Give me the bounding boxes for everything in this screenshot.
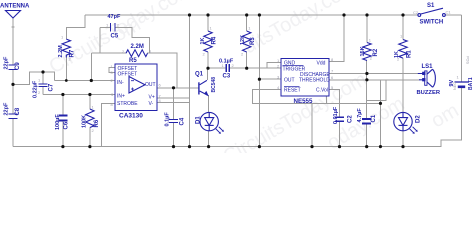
svg-text:SWITCH: SWITCH [420,20,444,26]
svg-text:OUT: OUT [284,77,295,83]
svg-text:R2: R2 [373,48,379,56]
svg-text:Q1: Q1 [195,72,204,78]
svg-text:D2: D2 [416,115,422,123]
svg-text:0.1µF: 0.1µF [165,112,171,127]
svg-text:1K: 1K [200,37,206,44]
svg-text:R1: R1 [407,50,413,58]
svg-text:STROBE: STROBE [117,101,138,107]
svg-text:C5: C5 [111,34,119,40]
svg-text:C8: C8 [15,107,21,115]
svg-text:22pF: 22pF [4,56,10,69]
svg-text:NEG: NEG [453,82,457,90]
svg-text:THRESHOLD: THRESHOLD [299,77,330,83]
svg-text:2.2M: 2.2M [58,45,64,58]
svg-text:100µF: 100µF [55,114,61,130]
svg-text:ANTENNA: ANTENNA [0,4,30,10]
svg-text:BUZZER: BUZZER [417,90,441,96]
svg-text:0.01µF: 0.01µF [333,106,339,124]
svg-text:R4: R4 [212,36,218,44]
svg-text:C1: C1 [446,10,452,15]
svg-text:R6: R6 [94,119,100,127]
svg-text:4.7µF: 4.7µF [357,108,363,123]
svg-text:Vdd: Vdd [317,61,326,67]
svg-text:V-: V- [149,101,154,107]
svg-text:R5: R5 [129,58,137,64]
svg-text:C3: C3 [223,74,231,80]
svg-text:RESET: RESET [284,87,301,93]
svg-text:100K: 100K [82,115,88,128]
svg-text:D1: D1 [196,116,202,124]
svg-text:OFFSET: OFFSET [118,72,138,78]
svg-text:S1: S1 [427,3,435,9]
svg-text:IN+: IN+ [117,94,125,100]
svg-text:C.Vol: C.Vol [316,87,328,93]
svg-text:NE555: NE555 [294,98,313,105]
svg-text:C1: C1 [371,114,377,122]
svg-text:POS: POS [466,56,470,64]
svg-text:C7: C7 [49,83,55,91]
svg-text:15K: 15K [360,46,366,56]
svg-text:BC548: BC548 [211,77,217,93]
svg-text:BAT1: BAT1 [468,77,474,90]
svg-text:OUT: OUT [145,82,156,88]
svg-text:C2: C2 [348,115,354,123]
svg-text:12K: 12K [240,35,246,45]
svg-text:C6: C6 [64,121,70,129]
svg-text:C2: C2 [413,10,419,15]
svg-text:R3: R3 [250,37,256,45]
svg-text:2.2M: 2.2M [131,44,144,50]
svg-text:C4: C4 [180,117,186,125]
svg-text:CA3130: CA3130 [119,113,143,120]
svg-text:C9: C9 [15,62,21,70]
svg-text:IN-: IN- [117,80,124,86]
svg-text:22pF: 22pF [4,102,10,115]
svg-text:LS1: LS1 [422,64,434,70]
svg-text:V+: V+ [149,94,155,100]
svg-text:47pF: 47pF [108,14,121,20]
